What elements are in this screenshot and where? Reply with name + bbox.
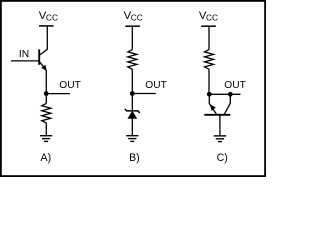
net VCC label (A) <box>39 10 58 22</box>
ground (C) <box>214 136 226 142</box>
svg-text:OUT: OUT <box>224 80 246 91</box>
wire base to ground (C) <box>219 115 221 136</box>
net VCC label (C) <box>199 10 218 22</box>
wire resistor to OUT node (B) <box>131 69 133 93</box>
svg-text:C): C) <box>217 152 228 164</box>
svg-text:CC: CC <box>131 12 143 22</box>
node junction dot (B) <box>130 91 135 96</box>
transistor Q2 emitter with arrow <box>209 94 216 114</box>
resistor R2 <box>128 50 137 70</box>
wire VCC to resistor (B) <box>131 26 133 49</box>
transistor Q2 base bar <box>204 114 230 116</box>
wire emitter to OUT node (A) <box>45 70 47 93</box>
net VCC label (B) <box>124 10 143 22</box>
svg-text:OUT: OUT <box>59 80 81 91</box>
power rail VCC bar (B) <box>125 25 140 27</box>
border frame <box>1 1 265 176</box>
wire resistor to ground (A) <box>45 123 47 136</box>
svg-text:IN: IN <box>19 49 29 60</box>
wire OUT rail (C) <box>209 93 241 95</box>
svg-text:CC: CC <box>46 12 58 22</box>
wire VCC to collector (A) <box>40 26 47 55</box>
node junction dot (A) <box>44 91 49 96</box>
power rail VCC bar (A) <box>39 25 54 27</box>
power rail VCC bar (C) <box>201 25 216 27</box>
wire zener anode to ground (B) <box>131 119 133 136</box>
ground (B) <box>126 136 138 142</box>
node junction dot right (C) <box>228 92 233 97</box>
wire resistor to OUT node (C) <box>208 69 210 94</box>
resistor R3 <box>205 50 214 70</box>
svg-text:OUT: OUT <box>145 80 167 91</box>
zener diode D1 <box>125 109 140 119</box>
wire IN to base (A) <box>11 60 39 62</box>
node junction dot left (C) <box>207 92 212 97</box>
resistor R1 <box>42 103 51 123</box>
svg-text:CC: CC <box>206 12 218 22</box>
wire OUT (B) <box>132 93 156 95</box>
transistor Q1 emitter with arrow <box>40 62 47 71</box>
wire VCC to resistor (C) <box>208 26 210 49</box>
transistor Q1 base bar <box>38 49 40 64</box>
wire OUT (A) <box>46 93 70 95</box>
wire node to resistor (A) <box>45 94 47 104</box>
wire node to zener cathode (B) <box>131 94 133 111</box>
transistor Q2 collector <box>224 94 230 114</box>
ground (A) <box>40 136 52 142</box>
svg-text:A): A) <box>41 152 52 164</box>
svg-text:B): B) <box>129 152 140 164</box>
